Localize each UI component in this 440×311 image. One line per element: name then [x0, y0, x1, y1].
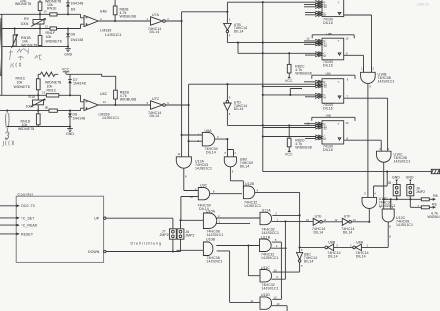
svg-text:DIL14: DIL14: [206, 150, 216, 154]
svg-text:1N4148: 1N4148: [73, 116, 86, 120]
svg-text:Y: Y: [338, 39, 340, 43]
svg-text:WIDBUS8: WIDBUS8: [295, 72, 312, 76]
diode D6: [66, 0, 83, 14]
resistor RN1A (vertical top): [15, 0, 42, 14]
svg-text:DIL16: DIL16: [323, 148, 333, 152]
svg-text:VCC: VCC: [62, 68, 70, 72]
gate U12D (vertical): [362, 171, 396, 223]
svg-text:14JS01C1: 14JS01C1: [195, 167, 212, 171]
svg-text:U4C: U4C: [100, 92, 108, 96]
flip-flop U9A (FF3): [304, 72, 388, 152]
resistor RN1G (horizontal): [42, 81, 61, 97]
inverter U7A: [147, 13, 182, 34]
svg-text:2: 2: [373, 66, 375, 70]
ground: [64, 45, 72, 56]
inverter U7C: [147, 97, 189, 118]
svg-text:14JS01C1: 14JS01C1: [396, 223, 413, 227]
resistor RN1E (horizontal): [44, 0, 62, 16]
node J1a: [39, 13, 41, 15]
wire: [0, 14, 81, 95]
node J-bus-125: [262, 124, 264, 126]
resistor RN1F (vertical): [38, 29, 62, 47]
diode D7: [68, 74, 86, 95]
node J-227-12: [226, 11, 228, 13]
svg-text:3: 3: [364, 192, 366, 196]
svg-text:3: 3: [217, 135, 219, 139]
node J-181b: [181, 134, 183, 136]
svg-text:U11C: U11C: [261, 266, 270, 270]
ground GND2: [66, 125, 74, 136]
svg-text:GND: GND: [392, 176, 400, 180]
svg-text:13: 13: [42, 90, 45, 94]
svg-text:DIL14: DIL14: [234, 107, 244, 111]
resistor zigzag RN1C-top: [38, 72, 58, 76]
svg-text:6: 6: [347, 78, 349, 82]
svg-text:WIDBUS8: WIDBUS8: [120, 15, 137, 19]
resistor R82C: [114, 90, 137, 104]
flip-flop U9B (FF4): [304, 114, 381, 153]
inverter U7B: [224, 12, 248, 43]
node J2a: [37, 94, 39, 96]
svg-text:VCC: VCC: [285, 79, 293, 83]
resistor R82F: [410, 199, 440, 219]
wire U10A feed: [181, 219, 204, 221]
svg-text:WIDNET8: WIDNET8: [15, 2, 31, 6]
svg-text:U7E: U7E: [315, 215, 323, 219]
svg-text:U7F: U7F: [344, 215, 351, 219]
node J-181a: [181, 20, 183, 22]
svg-text:D6: D6: [71, 32, 76, 36]
svg-text:RESET: RESET: [21, 232, 34, 236]
svg-text:100k: 100k: [21, 22, 29, 26]
svg-text:WIDNET8: WIDNET8: [46, 39, 62, 43]
wire FF4 clk: [263, 136, 316, 138]
svg-text:4: 4: [276, 244, 278, 248]
svg-text:1N4148: 1N4148: [71, 38, 84, 42]
node J2d: [69, 110, 71, 112]
inverter U8C (down-pointing): [297, 248, 318, 272]
diode D6b: [66, 29, 83, 47]
svg-text:12: 12: [177, 152, 180, 156]
svg-text:Counter: Counter: [18, 192, 35, 196]
svg-text:WIDBUS8: WIDBUS8: [120, 98, 137, 102]
svg-text:RE: RE: [432, 202, 438, 206]
resistor R82D mid: [285, 124, 312, 156]
node J1c: [39, 27, 41, 29]
node J-bus-top: [262, 1, 264, 3]
wire clk FF2: [238, 43, 316, 54]
wire VCC rail to R82C: [66, 74, 116, 90]
wire stage2 bottom: [7, 126, 70, 128]
svg-text:DIL16: DIL16: [323, 63, 333, 67]
svg-text:6: 6: [257, 188, 259, 192]
node J2c: [37, 110, 39, 112]
svg-text:1: 1: [188, 152, 190, 156]
resistor R82C mid: [285, 52, 312, 83]
svg-text:5: 5: [225, 151, 227, 155]
wire to FF1 top: [227, 2, 316, 12]
svg-text:U10B: U10B: [206, 237, 216, 241]
svg-text:DIL14: DIL14: [150, 114, 160, 118]
svg-text:UP: UP: [94, 216, 100, 220]
svg-text:DIL14: DIL14: [234, 30, 244, 34]
svg-text:U11A: U11A: [262, 209, 271, 213]
node J-bus-86: [262, 85, 264, 87]
svg-text:14JS01C1: 14JS01C1: [207, 233, 224, 237]
svg-text:4: 4: [229, 34, 231, 38]
counter box: [0, 192, 106, 262]
svg-text:U11D: U11D: [261, 293, 270, 297]
wire U7C bus: [188, 84, 190, 157]
svg-text:R9: R9: [24, 17, 29, 21]
node J-227-84: [226, 83, 228, 85]
svg-text:DIL14: DIL14: [356, 254, 366, 258]
wire U7B out to FF2: [227, 42, 316, 44]
wire: [0, 28, 81, 30]
svg-text:9: 9: [229, 96, 231, 100]
flip-flop U9A (FF1): [304, 0, 372, 72]
svg-text:WIDNET8: WIDNET8: [21, 44, 37, 48]
and U10B (horizontal low): [177, 237, 261, 302]
svg-text:2: 2: [350, 243, 352, 247]
nand U10B (vertical): [361, 66, 395, 197]
wire main clock bus: [263, 2, 432, 171]
svg-text:S2: S2: [324, 127, 328, 131]
svg-text:2: 2: [100, 17, 102, 21]
svg-text:J8: J8: [387, 181, 391, 185]
svg-text:R10: R10: [29, 95, 36, 99]
svg-text:9: 9: [388, 147, 390, 151]
resistor RN1D (vertical): [18, 111, 40, 131]
svg-text:VCC: VCC: [285, 153, 293, 157]
svg-text:S2: S2: [324, 85, 328, 89]
node J-bus-53: [262, 52, 264, 54]
svg-text:^C_SET: ^C_SET: [21, 216, 35, 220]
svg-text:10: 10: [306, 37, 309, 41]
wire U7A bus: [182, 12, 228, 157]
svg-text:6: 6: [232, 169, 234, 173]
svg-text:13: 13: [276, 302, 279, 306]
node J1b: [67, 13, 69, 15]
nand U9C (horizontal): [181, 184, 242, 221]
svg-text:14JS01C1: 14JS01C1: [394, 159, 411, 163]
wire U4C out: [98, 104, 150, 106]
svg-text:5: 5: [275, 238, 277, 242]
flip-flop U8B (FF2): [304, 32, 364, 72]
svg-text:GND: GND: [64, 53, 72, 57]
svg-text:JMP2: JMP2: [416, 190, 425, 194]
svg-text:U7C: U7C: [152, 97, 160, 101]
node J-188b: [188, 140, 190, 142]
svg-text:3: 3: [229, 17, 231, 21]
nand U8A (horizontal): [182, 129, 229, 157]
svg-text:U7A: U7A: [152, 13, 160, 17]
or U11D: [230, 293, 288, 311]
resistor R82E: [421, 194, 437, 201]
wire jumper bus: [383, 198, 422, 200]
svg-text:1N4148: 1N4148: [73, 82, 86, 86]
svg-text:DIL14: DIL14: [314, 230, 324, 234]
wire U4B out: [98, 20, 150, 22]
svg-text:8: 8: [229, 112, 231, 116]
svg-text:14JS01C1: 14JS01C1: [262, 286, 279, 290]
svg-text:12: 12: [274, 296, 277, 300]
svg-text:13: 13: [44, 9, 47, 13]
svg-text:14JS01C1: 14JS01C1: [105, 33, 122, 37]
jumper J7: [160, 229, 177, 252]
wire stage2 line2: [0, 110, 81, 112]
svg-text:8: 8: [389, 235, 391, 239]
svg-text:Drehrichtung: Drehrichtung: [131, 242, 162, 246]
wire U7D out to FF4: [227, 124, 316, 126]
svg-text:GND: GND: [406, 176, 414, 180]
wire DOWN: [106, 250, 181, 252]
svg-text:14JS01C1: 14JS01C1: [244, 204, 261, 208]
wire FF3 clk: [263, 89, 316, 96]
potentiometer R9: [21, 14, 49, 28]
svg-text:D6: D6: [71, 8, 76, 12]
wire U12C out across: [361, 235, 391, 248]
wire FF3 row3: [263, 85, 316, 87]
jumper J6: [177, 219, 194, 251]
wire stage2 input: [0, 94, 81, 96]
svg-text:14JS0CC1: 14JS0CC1: [261, 256, 279, 260]
svg-text:JMP2: JMP2: [160, 233, 169, 237]
svg-text:^C_READ: ^C_READ: [21, 224, 38, 228]
node J-bus-42: [262, 42, 264, 44]
svg-text:10: 10: [190, 195, 193, 199]
svg-text:1496-14: 1496-14: [417, 2, 429, 6]
svg-text:11: 11: [250, 299, 253, 303]
svg-text:4: 4: [234, 151, 236, 155]
node J-bus-136: [262, 135, 264, 137]
op-amp U4B: [81, 9, 122, 37]
connector OSZ: [431, 169, 439, 173]
svg-text:100k: 100k: [26, 104, 34, 108]
svg-text:8: 8: [46, 106, 48, 110]
svg-text:R8: R8: [433, 194, 438, 198]
svg-text:S2: S2: [324, 5, 328, 9]
resistor RN1H (horizontal): [46, 106, 57, 113]
node J-bus-95: [262, 94, 264, 96]
op-amp U4C: [81, 92, 120, 120]
svg-text:2: 2: [275, 211, 277, 215]
svg-text:U8B: U8B: [327, 32, 332, 36]
svg-text:WIDNET8: WIDNET8: [18, 127, 34, 131]
svg-text:10: 10: [274, 268, 277, 272]
svg-text:10k: 10k: [46, 35, 52, 39]
svg-text:U10A: U10A: [206, 209, 216, 213]
svg-text:10: 10: [345, 36, 348, 40]
power VCC: [62, 68, 70, 75]
svg-text:Y: Y: [338, 80, 340, 84]
svg-text:14: 14: [103, 100, 106, 104]
svg-text:RN1E: RN1E: [47, 7, 57, 11]
svg-text:DIL16: DIL16: [323, 21, 333, 25]
svg-text:OC0..73: OC0..73: [21, 204, 35, 208]
svg-text:DIL14: DIL14: [304, 260, 314, 264]
svg-text:4: 4: [374, 192, 376, 196]
and U10A (horizontal): [203, 209, 260, 237]
svg-text:1N4148: 1N4148: [71, 2, 84, 6]
nand U9B (vertical): [224, 150, 253, 189]
diode D8: [68, 111, 85, 127]
pencil marks top-left: [1, 18, 42, 147]
nand U12A (vertical): [176, 152, 212, 190]
svg-text:U9B: U9B: [326, 114, 331, 118]
wire UP: [106, 218, 173, 229]
svg-text:U12B: U12B: [245, 182, 255, 186]
svg-text:U8A: U8A: [356, 241, 364, 245]
wire FF4 row3 from bus: [263, 127, 316, 129]
resistor RN1F (horizontal): [50, 27, 57, 30]
svg-text:13: 13: [45, 25, 48, 29]
potentiometer RN1B: [12, 27, 38, 48]
svg-text:DIL16: DIL16: [323, 107, 333, 111]
svg-text:DOWN: DOWN: [88, 250, 100, 254]
svg-text:1: 1: [367, 243, 369, 247]
node J-R82C: [114, 104, 116, 106]
node J1d: [67, 27, 69, 29]
svg-text:6: 6: [301, 248, 303, 252]
svg-text:5: 5: [301, 264, 303, 268]
or U11C: [260, 221, 300, 290]
gate U12C (vertical): [380, 199, 413, 247]
svg-text:WIDBUS8: WIDBUS8: [295, 145, 312, 149]
svg-text:1: 1: [276, 217, 278, 221]
svg-text:WIDNET8: WIDNET8: [14, 85, 30, 89]
svg-text:1: 1: [198, 132, 200, 136]
svg-text:3: 3: [336, 243, 338, 247]
svg-text:LM339: LM339: [100, 29, 111, 33]
svg-text:U8B: U8B: [328, 241, 336, 245]
svg-text:U9A: U9A: [326, 72, 331, 76]
node J-R82A: [114, 20, 116, 22]
inverter U7E: [306, 215, 342, 235]
svg-text:8: 8: [213, 190, 215, 194]
svg-text:U4B: U4B: [100, 9, 108, 13]
svg-text:DIL14: DIL14: [240, 164, 250, 168]
svg-text:12: 12: [334, 218, 337, 222]
potentiometer RN1D-left: [5, 111, 9, 141]
svg-text:1: 1: [219, 219, 221, 223]
nand U10C (vertical): [377, 147, 411, 209]
svg-text:S2: S2: [324, 44, 328, 48]
inverter U7F: [334, 215, 369, 235]
or U11A: [260, 209, 313, 236]
svg-text:10: 10: [345, 121, 348, 125]
svg-text:U8A: U8A: [205, 129, 213, 133]
svg-text:M: M: [324, 95, 327, 99]
inverter U8A (left-pointing): [334, 241, 369, 259]
inverter U8B (left-pointing): [300, 241, 341, 259]
resistor RN1C (vertical): [14, 74, 41, 95]
wire: [2, 29, 68, 47]
svg-text:8: 8: [185, 174, 187, 178]
node J-188a: [188, 104, 190, 106]
svg-text:U11B: U11B: [261, 235, 270, 239]
jumper J8: [387, 176, 400, 201]
svg-text:GND: GND: [66, 132, 74, 136]
svg-text:8: 8: [389, 224, 391, 228]
svg-text:WIDBUS8: WIDBUS8: [428, 215, 440, 219]
svg-text:M: M: [324, 54, 327, 58]
or U12B (horizontal): [243, 182, 300, 252]
svg-text:14JS01C1: 14JS01C1: [102, 116, 119, 120]
svg-text:13: 13: [353, 218, 356, 222]
svg-text:9: 9: [276, 275, 278, 279]
svg-text:RN1C: RN1C: [47, 89, 57, 93]
svg-text:M: M: [324, 137, 327, 141]
svg-text:9: 9: [369, 84, 371, 88]
svg-text:14JS0IC1: 14JS0IC1: [207, 260, 223, 264]
svg-text:1: 1: [361, 66, 363, 70]
svg-text:U9C: U9C: [200, 184, 208, 188]
svg-text:Y: Y: [338, 122, 340, 126]
or U11B: [260, 235, 288, 299]
svg-text:DIL14: DIL14: [328, 254, 338, 258]
svg-text:JMP2: JMP2: [185, 234, 194, 238]
node J2b: [69, 94, 71, 96]
svg-text:DIL14: DIL14: [150, 30, 160, 34]
resistor R82B: [113, 0, 136, 21]
node J-238: [237, 42, 239, 44]
svg-text:2: 2: [218, 214, 220, 218]
svg-text:DIL14: DIL14: [343, 230, 353, 234]
inverter U7D: [224, 84, 248, 125]
svg-text:10: 10: [306, 218, 309, 222]
svg-text:Y: Y: [338, 1, 340, 5]
svg-text:14JS01C1: 14JS01C1: [378, 80, 395, 84]
potentiometer R10: [26, 95, 48, 111]
jumper J9: [406, 176, 426, 201]
wire y84 to FF3: [189, 83, 316, 85]
